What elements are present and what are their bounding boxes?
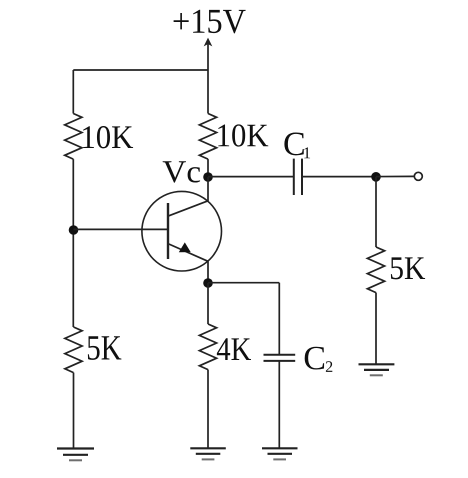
wire collector into transistor: [207, 177, 209, 201]
wire to output terminal: [376, 175, 414, 177]
wire C2 bottom: [278, 361, 280, 448]
wire Vc to C1: [208, 176, 294, 178]
supply arrow: [205, 39, 212, 71]
wire emitter to 4K: [207, 283, 209, 324]
node base junction: [69, 225, 79, 235]
wire emitter to C2 branch: [208, 282, 279, 284]
resistor 10K (left bias): [65, 114, 82, 160]
node output junction: [371, 172, 381, 182]
wire emitter: [207, 261, 209, 283]
value label 5K (left): [88, 336, 122, 360]
wire left bottom: [73, 373, 75, 448]
capacitor C2: [264, 355, 296, 361]
wire 4K bottom: [207, 370, 209, 448]
value label C1: [284, 132, 310, 158]
ground (left): [57, 449, 94, 461]
wire supply riser: [207, 70, 209, 114]
wire C1 to output node: [302, 176, 376, 178]
wire load bottom: [375, 293, 377, 364]
resistor 10K (collector): [199, 114, 216, 160]
node Vc: [203, 172, 213, 182]
resistor 5K (load): [367, 247, 384, 293]
value label 10K (left): [83, 126, 133, 148]
+15V supply label: [174, 10, 246, 34]
wire base: [74, 228, 169, 230]
value label 10K (right): [218, 124, 268, 146]
wire left mid: [72, 159, 74, 327]
ground (load): [359, 364, 395, 375]
value label 5K (right): [391, 257, 425, 279]
capacitor C1: [294, 159, 302, 195]
resistor 4K (emitter): [199, 324, 216, 370]
wire top rail: [73, 69, 208, 71]
transistor Q1 (NPN): [142, 191, 222, 271]
output terminal (open circle): [414, 172, 422, 180]
value label C2: [305, 347, 333, 372]
wire left branch top: [72, 70, 74, 114]
ground (C2): [262, 448, 298, 459]
wire output node down: [375, 177, 377, 247]
value label 4K: [217, 338, 251, 360]
wire collector upper: [207, 159, 209, 177]
ground (4K): [190, 448, 226, 459]
resistor 5K (left bias lower): [65, 327, 82, 373]
node label Vc: [163, 161, 200, 182]
node emitter junction: [203, 278, 213, 288]
wire C2 branch down: [278, 283, 280, 354]
